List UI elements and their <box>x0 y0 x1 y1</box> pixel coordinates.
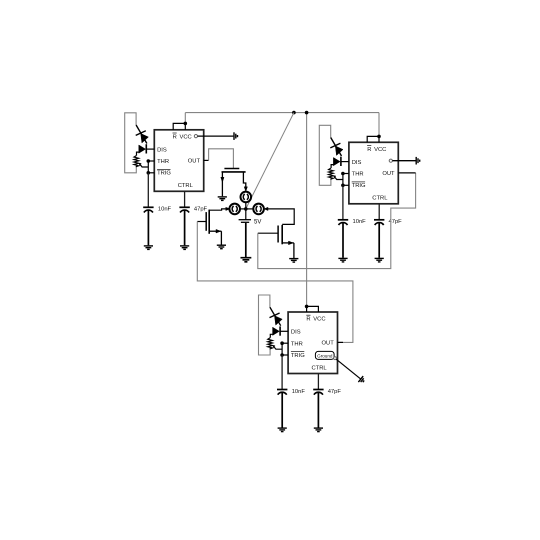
svg-text:TRIG: TRIG <box>352 183 366 189</box>
svg-text:THR: THR <box>157 159 169 165</box>
svg-text:R: R <box>173 134 177 140</box>
svg-text:CTRL: CTRL <box>312 365 328 371</box>
svg-text:R: R <box>306 317 310 323</box>
svg-text:47pF: 47pF <box>194 207 208 213</box>
svg-text:10nF: 10nF <box>292 389 306 395</box>
svg-text:Ground: Ground <box>317 353 333 358</box>
svg-text:DIS: DIS <box>352 160 362 166</box>
svg-text:CTRL: CTRL <box>372 196 388 202</box>
svg-text:VCC: VCC <box>313 317 325 323</box>
svg-text:TRIG: TRIG <box>291 353 305 359</box>
svg-text:OUT: OUT <box>188 158 201 164</box>
svg-text:DIS: DIS <box>157 147 167 153</box>
svg-text:TRIG: TRIG <box>157 171 171 177</box>
svg-text:VCC: VCC <box>374 147 386 153</box>
svg-text:47pF: 47pF <box>328 389 342 395</box>
svg-text:VCC: VCC <box>180 134 192 140</box>
svg-text:OUT: OUT <box>322 341 335 347</box>
svg-text:10nF: 10nF <box>158 207 172 213</box>
svg-text:5V: 5V <box>254 220 261 226</box>
svg-text:THR: THR <box>352 172 364 178</box>
svg-text:THR: THR <box>291 341 303 347</box>
svg-text:R: R <box>367 147 371 153</box>
svg-text:DIS: DIS <box>291 330 301 336</box>
svg-text:CTRL: CTRL <box>178 183 194 189</box>
svg-text:OUT: OUT <box>382 171 395 177</box>
svg-text:10nF: 10nF <box>353 219 367 225</box>
